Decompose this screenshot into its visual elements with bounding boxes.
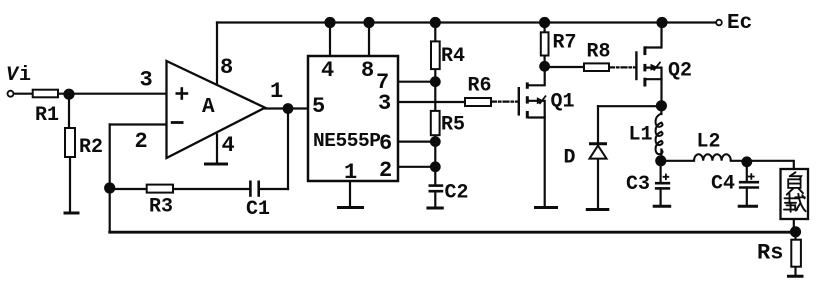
svg-text:3: 3 xyxy=(140,68,153,93)
svg-text:C4: C4 xyxy=(711,173,735,196)
svg-text:R4: R4 xyxy=(441,45,465,68)
svg-text:Rs: Rs xyxy=(757,241,783,266)
svg-text:4: 4 xyxy=(321,58,334,83)
svg-text:C1: C1 xyxy=(246,198,270,221)
svg-text:R7: R7 xyxy=(553,32,577,55)
svg-text:2: 2 xyxy=(379,158,392,183)
svg-text:R2: R2 xyxy=(79,136,103,159)
svg-text:C3: C3 xyxy=(626,173,650,196)
svg-text:Q2: Q2 xyxy=(668,60,692,83)
svg-text:R1: R1 xyxy=(35,104,59,127)
svg-text:2: 2 xyxy=(135,129,148,154)
svg-text:4: 4 xyxy=(222,133,235,158)
svg-text:8: 8 xyxy=(361,58,374,83)
svg-text:V: V xyxy=(6,64,20,87)
svg-text:1: 1 xyxy=(344,160,357,185)
svg-text:R5: R5 xyxy=(441,114,465,137)
svg-text:A: A xyxy=(202,96,215,119)
svg-text:R8: R8 xyxy=(587,41,611,64)
svg-text:D: D xyxy=(564,147,576,170)
svg-text:L1: L1 xyxy=(629,124,653,147)
svg-text:NE555P: NE555P xyxy=(313,130,381,152)
svg-text:R6: R6 xyxy=(468,75,492,98)
svg-text:8: 8 xyxy=(220,55,233,80)
svg-text:C2: C2 xyxy=(445,182,469,205)
svg-text:i: i xyxy=(19,64,31,87)
svg-text:L2: L2 xyxy=(697,131,721,154)
svg-text:Q1: Q1 xyxy=(551,91,575,114)
svg-text:5: 5 xyxy=(312,94,325,119)
svg-text:Ec: Ec xyxy=(727,12,752,35)
svg-text:R3: R3 xyxy=(149,196,173,219)
svg-text:3: 3 xyxy=(378,91,391,116)
svg-text:1: 1 xyxy=(270,79,283,104)
